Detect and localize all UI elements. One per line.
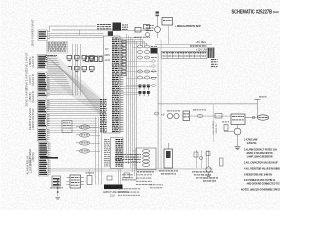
- optocoupler U6: [67, 175, 85, 188]
- terminal table TB1: [162, 46, 208, 59]
- diode pair rows CR6-CR7: [137, 70, 157, 79]
- transistor pinout key: [203, 150, 223, 181]
- wire vertical bundle from J3: [73, 44, 81, 96]
- resistor ladder column: [56, 178, 61, 199]
- driver module A1: [231, 114, 245, 125]
- wire stubs zones: [48, 57, 75, 96]
- resistor RT1: [86, 169, 95, 185]
- capacitor array 2x3 squares: [139, 85, 150, 97]
- +24V input stubs: [156, 12, 159, 27]
- IC U1 MPU: [104, 36, 121, 133]
- wire verticals bottom center: [96, 117, 122, 185]
- transistor Q3: [155, 27, 161, 38]
- connector J6 zone 1: [38, 55, 50, 69]
- notes list: [241, 139, 285, 192]
- diode pair rows CR1-CR3: [137, 45, 157, 59]
- wire: ground rail bottom: [47, 169, 213, 172]
- left margin rotated harness labels: [25, 19, 36, 175]
- wire fan annun rows: [48, 119, 98, 133]
- connector J3 block with labels: [46, 42, 68, 62]
- junction block J10: [151, 48, 158, 54]
- small parts above pot: [107, 173, 136, 180]
- wire +12V unreg: [132, 47, 213, 51]
- wire nested corners U1 to CR column: [123, 38, 146, 46]
- wire: +12V rail: [158, 97, 267, 118]
- wire vertical data bus: [127, 34, 138, 180]
- wire: top power bus: [49, 26, 113, 38]
- resistor pullup row R14-R17: [67, 67, 94, 73]
- connector P1 pinout: [50, 176, 63, 188]
- crystal Y1 oscillator cluster: [97, 23, 128, 36]
- misc text cluster above bottom rail: [115, 154, 141, 163]
- wires U1 to node ovals: [126, 61, 152, 86]
- op-amp U4: [62, 121, 72, 133]
- wires U1 to cap array: [123, 86, 138, 95]
- IC U2: [104, 138, 123, 169]
- node labels column: [152, 60, 156, 87]
- IC U1 left external wire labels: [100, 99, 107, 132]
- connector J8 zone 3: [38, 99, 50, 112]
- potentiometer R40 amplitude control: [103, 185, 130, 198]
- connector J2 (power in): [38, 30, 50, 41]
- label: regulator note: [175, 25, 201, 28]
- label text left of Q3: [146, 25, 154, 31]
- transformer T1 low collector drive: [159, 143, 178, 174]
- wire staircase band zones: [48, 56, 102, 116]
- terminal block dark bars: [208, 48, 215, 59]
- scan noise overlay: [0, 0, 1, 1]
- connector J7 aux pins: [38, 92, 50, 98]
- wire fan lower inputs to U1: [48, 100, 101, 116]
- connector J7 zone 2: [38, 72, 50, 91]
- alarm splice circuit: [192, 150, 213, 178]
- wires from ovals to U1: [90, 127, 100, 152]
- resistor R30: [222, 122, 229, 131]
- resistor array column right of U1: [122, 41, 126, 76]
- wire: left edge of output box: [157, 53, 160, 169]
- IC U5 regulator: [183, 111, 190, 121]
- rotated +12V label near Q1: [213, 121, 218, 135]
- wire vertical right of U2: [160, 40, 162, 169]
- wire stub left of Q1: [212, 104, 214, 142]
- transistor Q1: [224, 125, 241, 147]
- ground below Q1: [235, 147, 241, 151]
- connector J3 relay: [39, 159, 51, 177]
- terminal side labels: [211, 59, 218, 67]
- wire speaker feed: [190, 110, 232, 119]
- speaker output oval: [245, 115, 269, 120]
- connector J9 annun: [38, 113, 50, 127]
- resistor pullup row R10-R13: [67, 56, 94, 62]
- IC U1 pin stubs right: [120, 38, 123, 132]
- voltage regulator VR1: [162, 18, 173, 26]
- bottom center text clusters: [118, 175, 163, 196]
- title: SCHEMATIC number: [232, 9, 280, 15]
- capacitor C1 C2 cluster: [134, 25, 150, 38]
- power filter row: capacitors C10 C11: [154, 111, 180, 119]
- ground bar on J3: [40, 157, 58, 159]
- wire bus above U1 to cap cluster: [113, 29, 152, 32]
- relay contact stack K1: [132, 148, 156, 172]
- wire +5V REG: [155, 25, 212, 45]
- connector J9 annun lower: [38, 128, 50, 141]
- connector J4 aux: [39, 142, 51, 159]
- indicator oval column DS1-DS4: [76, 125, 90, 153]
- resistor pack RP1: [84, 56, 103, 62]
